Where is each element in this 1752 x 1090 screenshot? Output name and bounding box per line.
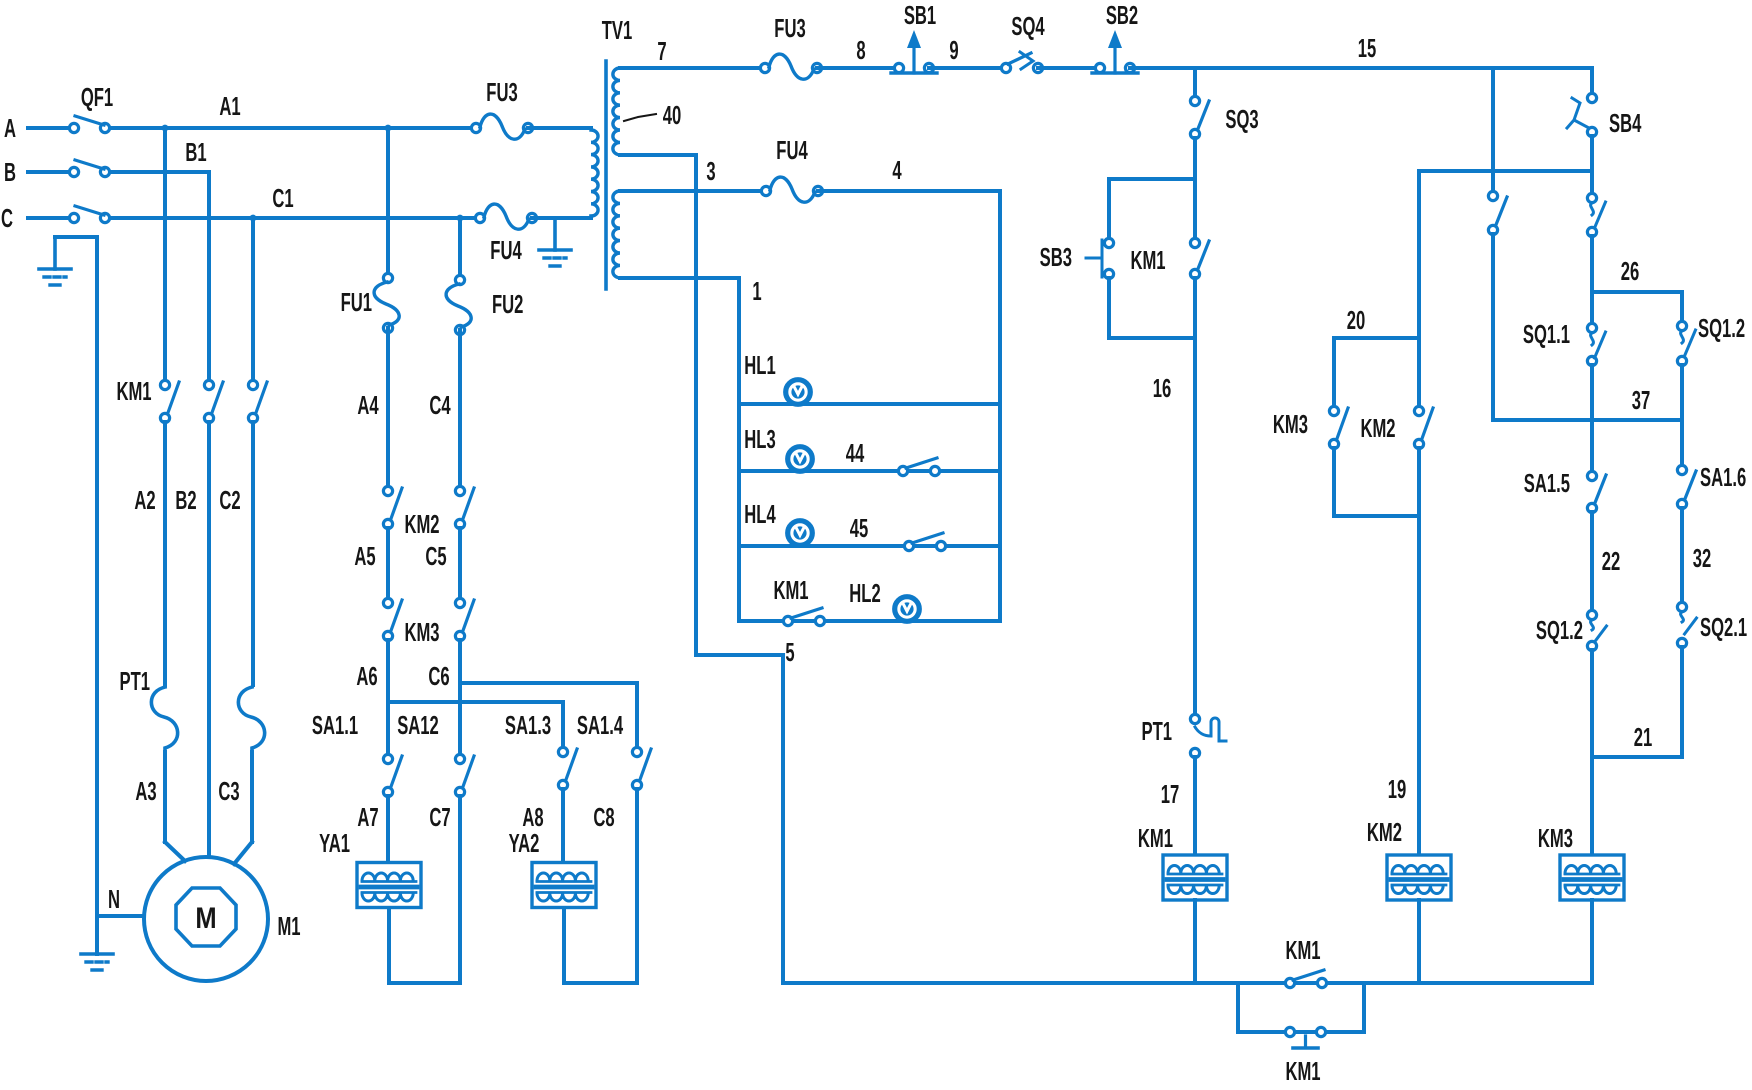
svg-text:FU2: FU2 <box>492 289 523 319</box>
svg-text:26: 26 <box>1621 256 1639 286</box>
svg-text:20: 20 <box>1347 305 1365 335</box>
svg-text:KM1: KM1 <box>773 575 808 605</box>
svg-text:C1: C1 <box>272 183 293 213</box>
svg-text:C6: C6 <box>428 661 449 691</box>
svg-text:SA1.1: SA1.1 <box>312 710 358 740</box>
svg-text:SA1.5: SA1.5 <box>1524 468 1570 498</box>
svg-text:FU3: FU3 <box>486 77 517 107</box>
svg-text:FU3: FU3 <box>774 13 805 43</box>
svg-text:5: 5 <box>785 637 794 667</box>
svg-text:40: 40 <box>663 100 681 130</box>
svg-text:HL4: HL4 <box>744 499 776 529</box>
svg-text:32: 32 <box>1693 543 1711 573</box>
svg-text:A4: A4 <box>357 390 379 420</box>
svg-text:A3: A3 <box>135 776 156 806</box>
svg-text:C2: C2 <box>219 485 240 515</box>
svg-text:19: 19 <box>1388 774 1406 804</box>
svg-text:SQ1.2: SQ1.2 <box>1536 615 1583 645</box>
svg-text:SA1.3: SA1.3 <box>505 710 551 740</box>
svg-text:SQ2.1: SQ2.1 <box>1700 612 1747 642</box>
svg-text:A1: A1 <box>219 91 240 121</box>
svg-text:YA2: YA2 <box>509 828 540 858</box>
svg-text:A2: A2 <box>134 485 155 515</box>
svg-text:N: N <box>108 884 120 914</box>
svg-text:SB1: SB1 <box>904 0 936 30</box>
svg-text:22: 22 <box>1602 546 1620 576</box>
svg-text:C3: C3 <box>218 776 239 806</box>
svg-text:A7: A7 <box>357 802 378 832</box>
svg-text:SQ1.1: SQ1.1 <box>1523 319 1570 349</box>
svg-text:16: 16 <box>1153 373 1171 403</box>
svg-text:KM1: KM1 <box>1285 1056 1320 1086</box>
svg-text:KM3: KM3 <box>1538 823 1573 853</box>
svg-text:A: A <box>4 113 16 143</box>
svg-text:PT1: PT1 <box>119 666 150 696</box>
svg-text:C7: C7 <box>429 802 450 832</box>
svg-text:SA1.6: SA1.6 <box>1700 462 1746 492</box>
svg-text:KM1: KM1 <box>116 376 151 406</box>
svg-text:8: 8 <box>856 35 865 65</box>
svg-text:QF1: QF1 <box>81 82 113 112</box>
svg-text:B1: B1 <box>185 137 206 167</box>
svg-text:44: 44 <box>846 438 865 468</box>
svg-text:FU1: FU1 <box>341 287 372 317</box>
svg-text:A6: A6 <box>356 661 377 691</box>
svg-text:FU4: FU4 <box>490 235 522 265</box>
svg-text:KM1: KM1 <box>1138 823 1173 853</box>
svg-text:C4: C4 <box>429 390 451 420</box>
svg-text:C8: C8 <box>593 802 614 832</box>
svg-text:FU4: FU4 <box>776 135 808 165</box>
svg-text:SQ1.2: SQ1.2 <box>1698 313 1745 343</box>
svg-text:45: 45 <box>850 513 868 543</box>
svg-text:PT1: PT1 <box>1141 716 1172 746</box>
svg-text:SB3: SB3 <box>1040 242 1072 272</box>
svg-text:SA1.4: SA1.4 <box>577 710 624 740</box>
svg-text:KM3: KM3 <box>1273 409 1308 439</box>
svg-text:SQ3: SQ3 <box>1225 104 1258 134</box>
svg-text:KM2: KM2 <box>1360 413 1395 443</box>
svg-text:37: 37 <box>1632 385 1650 415</box>
svg-text:KM1: KM1 <box>1130 245 1165 275</box>
svg-text:9: 9 <box>949 35 958 65</box>
svg-text:HL2: HL2 <box>849 578 880 608</box>
svg-text:C: C <box>1 203 13 233</box>
svg-text:SQ4: SQ4 <box>1011 11 1045 41</box>
svg-text:SA12: SA12 <box>397 710 439 740</box>
svg-text:7: 7 <box>657 36 666 66</box>
svg-text:HL3: HL3 <box>744 424 775 454</box>
svg-text:KM2: KM2 <box>1367 817 1402 847</box>
svg-text:SB4: SB4 <box>1609 108 1642 138</box>
svg-text:SB2: SB2 <box>1106 0 1138 30</box>
svg-text:M1: M1 <box>277 911 300 941</box>
svg-text:HL1: HL1 <box>744 350 775 380</box>
svg-text:B2: B2 <box>175 485 196 515</box>
svg-text:A5: A5 <box>354 541 375 571</box>
svg-text:1: 1 <box>752 276 761 306</box>
svg-text:KM2: KM2 <box>404 509 439 539</box>
svg-text:C5: C5 <box>425 541 446 571</box>
svg-text:TV1: TV1 <box>602 15 633 45</box>
svg-text:21: 21 <box>1634 722 1652 752</box>
svg-text:YA1: YA1 <box>319 828 350 858</box>
svg-text:B: B <box>4 157 16 187</box>
svg-text:KM3: KM3 <box>404 617 439 647</box>
svg-text:KM1: KM1 <box>1285 935 1320 965</box>
svg-text:3: 3 <box>706 156 715 186</box>
svg-text:4: 4 <box>892 155 902 185</box>
svg-text:17: 17 <box>1161 779 1179 809</box>
svg-text:M: M <box>195 901 216 934</box>
svg-text:15: 15 <box>1358 33 1376 63</box>
